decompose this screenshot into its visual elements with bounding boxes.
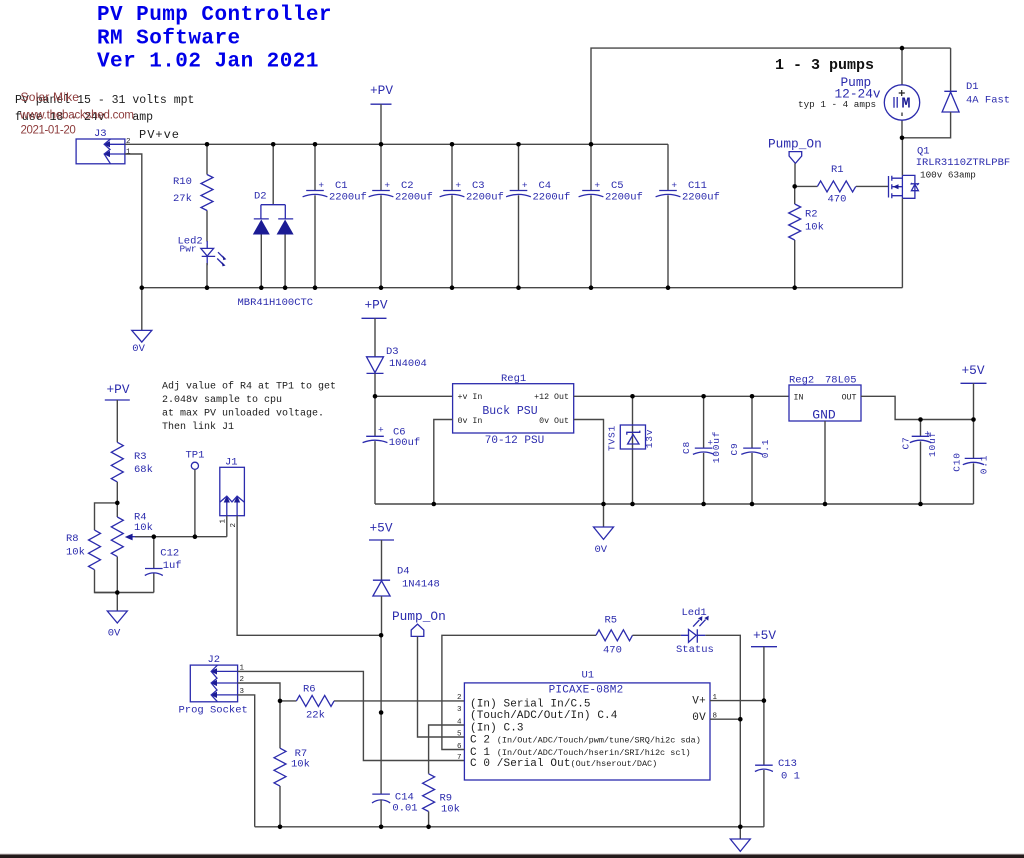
- svg-text:C5: C5: [611, 180, 624, 192]
- svg-text:10k: 10k: [805, 222, 824, 234]
- wire branch to R8: [95, 503, 118, 530]
- diode D2 dual MBR41H100CTC: [238, 144, 314, 309]
- svg-text:2200uf: 2200uf: [682, 192, 720, 204]
- svg-text:U1: U1: [582, 670, 595, 682]
- svg-text:typ 1 - 4 amps: typ 1 - 4 amps: [798, 99, 876, 110]
- connector J3: [76, 128, 131, 164]
- diode D1 4A Fast: [902, 48, 1010, 138]
- svg-text:+: +: [923, 430, 934, 437]
- svg-text:+: +: [594, 180, 600, 191]
- svg-text:Status: Status: [676, 644, 714, 656]
- svg-text:2200uf: 2200uf: [466, 192, 504, 204]
- resistor R5 470: [596, 615, 681, 657]
- svg-text:R6: R6: [303, 684, 316, 696]
- svg-text:3: 3: [457, 706, 462, 714]
- svg-text:Ver 1.02 Jan 2021: Ver 1.02 Jan 2021: [97, 51, 319, 74]
- svg-text:+: +: [708, 439, 713, 449]
- svg-text:2200uf: 2200uf: [533, 192, 571, 204]
- junction dots mid section: [373, 394, 976, 506]
- svg-text:C4: C4: [539, 180, 552, 192]
- svg-text:at max PV unloaded voltage.: at max PV unloaded voltage.: [162, 408, 324, 420]
- regulator Reg1 Buck PSU: [453, 373, 574, 447]
- svg-text:1: 1: [126, 149, 131, 157]
- bottom window bar: [0, 854, 1024, 855]
- svg-text:2200uf: 2200uf: [605, 192, 643, 204]
- svg-text:70-12 PSU: 70-12 PSU: [485, 435, 544, 447]
- svg-text:100uf: 100uf: [389, 437, 421, 449]
- ground 0V mid: [594, 504, 614, 556]
- svg-text:22k: 22k: [306, 710, 325, 722]
- connector J1: [220, 457, 245, 528]
- svg-text:C 2 (In/Out/ADC/Touch/pwm/tune: C 2 (In/Out/ADC/Touch/pwm/tune/SRQ/hi2c …: [470, 735, 701, 747]
- svg-text:2: 2: [457, 694, 462, 702]
- power +5V above D4: [369, 521, 394, 581]
- wire Reg1 +12 Out: [574, 395, 789, 397]
- svg-text:+5V: +5V: [962, 363, 985, 378]
- wire J2 pin1 to chip pin7: [238, 671, 465, 760]
- capacitor C9 0.1: [729, 396, 771, 504]
- svg-text:+: +: [378, 425, 384, 436]
- resistor R6 22k: [280, 684, 464, 722]
- connector J2 Prog Socket: [179, 654, 248, 717]
- svg-text:C12: C12: [160, 548, 179, 560]
- svg-text:www.thebackshed.com: www.thebackshed.com: [19, 110, 134, 122]
- svg-text:C8: C8: [681, 441, 692, 454]
- svg-text:Prog Socket: Prog Socket: [179, 705, 248, 717]
- LED Led2 Pwr: [178, 236, 227, 288]
- svg-text:C10: C10: [952, 452, 963, 472]
- svg-text:+5V: +5V: [370, 521, 393, 536]
- capacitor C4: [506, 144, 570, 287]
- svg-text:Reg2: Reg2: [789, 375, 814, 387]
- svg-text:470: 470: [828, 194, 847, 206]
- svg-text:68k: 68k: [134, 464, 153, 476]
- capacitor C2: [369, 144, 433, 287]
- TVS diode TVS1 13v: [606, 396, 655, 504]
- svg-text:C7: C7: [901, 436, 912, 449]
- transistor Q1 MOSFET: [889, 138, 1011, 288]
- svg-text:R8: R8: [66, 533, 79, 545]
- wire J3 pin1 down: [125, 154, 142, 288]
- svg-text:1uf: 1uf: [163, 560, 182, 572]
- wire J2 pin3 to 0V rail: [238, 695, 255, 827]
- wire +v In: [375, 395, 453, 397]
- svg-text:10k: 10k: [66, 547, 85, 559]
- wire wiper net: [135, 536, 227, 538]
- svg-text:+: +: [455, 180, 461, 191]
- wire riser to pump: [591, 48, 951, 144]
- wire J1 pin2: [237, 516, 381, 636]
- wire mid bottom rail: [375, 503, 974, 505]
- svg-text:(Touch/ADC/Out/In) C.4: (Touch/ADC/Out/In) C.4: [470, 710, 618, 722]
- junction dots top section: [140, 46, 905, 290]
- svg-text:(In) C.3: (In) C.3: [470, 723, 524, 735]
- svg-text:+: +: [384, 180, 390, 191]
- diode D4 1N4148: [373, 566, 440, 636]
- resistor R9 10k: [423, 774, 460, 827]
- svg-text:470: 470: [603, 645, 622, 657]
- wire J2 pin2 to R6: [238, 683, 280, 701]
- wire Reg2 OUT to +5V: [861, 396, 974, 419]
- svg-text:Q1: Q1: [917, 146, 930, 158]
- wire bottom rail: [255, 826, 764, 828]
- svg-text:0.01: 0.01: [392, 803, 417, 815]
- svg-text:1N4148: 1N4148: [402, 579, 440, 591]
- capacitor C12 1uf: [145, 537, 182, 593]
- test point TP1: [186, 450, 205, 537]
- svg-text:C 0 /Serial Out(Out/hserout/DA: C 0 /Serial Out(Out/hserout/DAC): [470, 758, 657, 770]
- ground 0V left-mid: [107, 593, 127, 640]
- capacitor C7 10uf: [901, 420, 939, 505]
- svg-text:Pump_On: Pump_On: [392, 609, 446, 624]
- svg-text:TVS1: TVS1: [606, 425, 617, 451]
- svg-text:J2: J2: [208, 654, 221, 666]
- wire Reg1 0v In: [434, 420, 453, 505]
- svg-text:OUT: OUT: [842, 394, 857, 403]
- junction dots left-mid: [115, 501, 197, 595]
- svg-text:10k: 10k: [441, 804, 460, 816]
- wire J1 pin1: [226, 516, 228, 537]
- svg-text:D1: D1: [966, 81, 979, 93]
- svg-text:RM Software: RM Software: [97, 28, 241, 51]
- svg-text:IRLR3110ZTRLPBF: IRLR3110ZTRLPBF: [916, 157, 1011, 169]
- svg-text:0v In: 0v In: [458, 417, 483, 426]
- capacitor C11: [656, 144, 720, 287]
- svg-text:C1: C1: [335, 180, 348, 192]
- resistor R1 470: [795, 164, 888, 206]
- capacitor C8 100uf: [681, 396, 722, 504]
- svg-text:100v 63amp: 100v 63amp: [920, 169, 976, 180]
- svg-text:PV Pump Controller: PV Pump Controller: [97, 4, 332, 27]
- svg-text:R2: R2: [805, 209, 818, 221]
- supply flag Pump_On (top): [768, 137, 822, 187]
- svg-text:Adj value of R4 at TP1 to get: Adj value of R4 at TP1 to get: [162, 381, 336, 393]
- capacitor C5: [579, 144, 643, 287]
- svg-text:0.1: 0.1: [760, 439, 771, 459]
- svg-text:+: +: [522, 180, 528, 191]
- svg-text:+: +: [671, 180, 677, 191]
- wire bottom rail 0V: [142, 287, 903, 289]
- svg-text:Pump_On: Pump_On: [768, 137, 822, 152]
- resistor R2 10k: [789, 186, 824, 287]
- svg-text:D3: D3: [386, 346, 399, 358]
- svg-text:D2: D2: [254, 191, 267, 203]
- wire chip pin6 up to R5: [442, 635, 596, 749]
- svg-text:1N4004: 1N4004: [389, 358, 427, 370]
- svg-text:+PV: +PV: [370, 83, 393, 98]
- capacitor C6 100uf: [363, 396, 421, 504]
- svg-text:27k: 27k: [173, 193, 192, 205]
- junction dots bottom section: [278, 633, 767, 829]
- svg-text:PV+ve: PV+ve: [139, 128, 180, 142]
- svg-text:2200uf: 2200uf: [395, 192, 433, 204]
- svg-text:R5: R5: [605, 615, 618, 627]
- svg-text:13v: 13v: [644, 429, 655, 449]
- wire chip 0V pin8: [710, 718, 740, 720]
- capacitor C3: [440, 144, 504, 287]
- power +PV left: [105, 382, 130, 442]
- svg-text:Reg1: Reg1: [501, 373, 526, 385]
- svg-text:+PV: +PV: [365, 298, 388, 313]
- resistor R7 10k: [274, 701, 310, 827]
- resistor R10: [173, 144, 213, 241]
- svg-text:Then link J1: Then link J1: [162, 421, 234, 433]
- LED Led1 Status: [676, 607, 740, 719]
- svg-text:2.048v sample to cpu: 2.048v sample to cpu: [162, 394, 282, 406]
- svg-text:+12 Out: +12 Out: [534, 393, 569, 402]
- svg-text:C9: C9: [729, 442, 740, 455]
- svg-text:+5V: +5V: [753, 628, 776, 643]
- regulator Reg2 78L05: [789, 375, 861, 505]
- svg-text:J1: J1: [225, 457, 238, 469]
- wire Reg1 0v Out: [574, 420, 604, 505]
- power +5V bottom: [751, 628, 777, 701]
- svg-text:IN: IN: [794, 394, 804, 403]
- svg-text:0V: 0V: [132, 343, 145, 355]
- svg-text:V+: V+: [692, 696, 706, 708]
- power +5V mid-right: [961, 363, 987, 420]
- svg-text:PICAXE-08M2: PICAXE-08M2: [549, 685, 624, 697]
- capacitor C1: [303, 144, 367, 287]
- capacitor C10 0.1: [952, 420, 990, 505]
- svg-text:D4: D4: [397, 566, 410, 578]
- svg-text:Solar Mike: Solar Mike: [21, 90, 80, 104]
- resistor R3 68k: [111, 442, 153, 503]
- svg-text:TP1: TP1: [186, 450, 205, 462]
- svg-text:Pwr: Pwr: [180, 244, 197, 255]
- supply flag Pump_On (bottom): [392, 609, 464, 737]
- svg-text:7: 7: [457, 754, 462, 762]
- svg-text:R10: R10: [173, 176, 192, 188]
- svg-text:GND: GND: [812, 408, 836, 423]
- capacitor C13 0 1: [755, 758, 800, 827]
- svg-text:0V: 0V: [108, 628, 121, 640]
- svg-text:MBR41H100CTC: MBR41H100CTC: [238, 297, 314, 309]
- svg-text:C2: C2: [401, 180, 414, 192]
- svg-text:C11: C11: [688, 180, 707, 192]
- capacitor C14 0.01: [372, 792, 418, 827]
- svg-text:M: M: [902, 96, 911, 113]
- svg-text:+PV: +PV: [107, 382, 130, 397]
- svg-text:J3: J3: [94, 128, 107, 140]
- svg-text:10k: 10k: [134, 522, 153, 534]
- svg-text:0.1: 0.1: [979, 455, 990, 475]
- svg-text:Led1: Led1: [682, 607, 707, 619]
- svg-text:0v Out: 0v Out: [539, 417, 569, 426]
- svg-text:2200uf: 2200uf: [329, 192, 367, 204]
- wire top rail PV+ve: [125, 143, 668, 145]
- ground 0V left: [132, 288, 152, 356]
- power +PV top: [370, 83, 393, 144]
- note Adj value (black 4 lines): [162, 381, 336, 434]
- svg-text:0V: 0V: [595, 544, 608, 556]
- svg-text:C13: C13: [778, 758, 797, 770]
- resistor R8 10k: [66, 530, 117, 592]
- svg-text:2021-01-20: 2021-01-20: [21, 125, 76, 137]
- wire R8/C12 bottom: [95, 592, 154, 594]
- wire D4 node down to C14: [380, 635, 382, 794]
- svg-text:5: 5: [457, 731, 462, 739]
- svg-text:0 1: 0 1: [781, 771, 800, 783]
- IC U1 PICAXE-08M2: [457, 670, 718, 781]
- svg-text:10k: 10k: [291, 759, 310, 771]
- svg-text:(In) Serial In/C.5: (In) Serial In/C.5: [470, 698, 591, 710]
- svg-text:78L05: 78L05: [825, 375, 857, 387]
- svg-text:1 - 3 pumps: 1 - 3 pumps: [775, 57, 874, 74]
- svg-text:Buck PSU: Buck PSU: [482, 405, 537, 418]
- wire chip pin4 to R9: [429, 725, 465, 774]
- wire +5V down to C13: [763, 701, 765, 766]
- svg-text:C3: C3: [472, 180, 485, 192]
- svg-text:0V: 0V: [692, 712, 706, 724]
- wire pin8 node down: [739, 719, 741, 827]
- potentiometer R4 10k: [111, 503, 154, 593]
- svg-text:R1: R1: [831, 164, 844, 176]
- svg-text:4A Fast: 4A Fast: [966, 95, 1010, 107]
- power +PV mid: [362, 298, 388, 357]
- diode D3 1N4004: [367, 346, 427, 396]
- svg-text:R3: R3: [134, 451, 147, 463]
- motor M pump: [798, 48, 920, 138]
- svg-text:4: 4: [457, 719, 462, 727]
- svg-text:+: +: [318, 180, 324, 191]
- ground bottom: [730, 827, 750, 852]
- wire chip V+ pin1: [710, 700, 764, 702]
- svg-text:+v In: +v In: [458, 393, 483, 402]
